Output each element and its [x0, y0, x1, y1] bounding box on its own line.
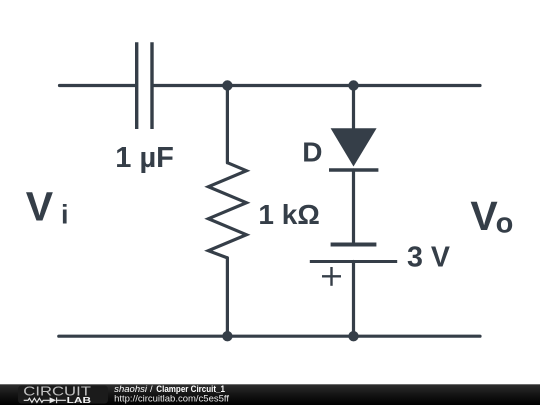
svg-text:/: /: [150, 384, 153, 394]
svg-text:http://circuitlab.com/c5es5ff: http://circuitlab.com/c5es5ff: [114, 393, 229, 403]
battery plus sign: [322, 267, 341, 286]
wire battery to bottom rail: [352, 262, 355, 337]
node bottom-right junction: [348, 331, 358, 341]
svg-text:V: V: [470, 193, 498, 239]
svg-text:V: V: [26, 184, 54, 230]
wire bottom rail: [59, 335, 480, 338]
battery V1 bottom plate: [310, 260, 397, 263]
wire diode anode lead: [352, 86, 355, 129]
node top-right junction: [348, 80, 358, 90]
diode D cathode bar: [329, 168, 378, 171]
logo resistor-diode glyph: [24, 397, 66, 403]
resistor R1 zigzag: [208, 163, 246, 258]
svg-text:1 kΩ: 1 kΩ: [258, 199, 319, 230]
svg-text:LAB: LAB: [67, 395, 91, 405]
svg-text:1 µF: 1 µF: [115, 142, 174, 174]
svg-text:shaohsi: shaohsi: [114, 384, 148, 394]
wire resistor top lead: [226, 86, 229, 163]
svg-text:o: o: [496, 208, 514, 240]
diode D triangle: [331, 128, 377, 166]
node top-left junction: [222, 80, 232, 90]
battery V1 top plate: [331, 243, 377, 247]
node bottom-left junction: [222, 331, 232, 341]
footer logo badge: [18, 386, 108, 404]
svg-text:Clamper Circuit_1: Clamper Circuit_1: [156, 384, 225, 394]
svg-text:D: D: [302, 137, 322, 168]
node junction dots: [222, 80, 358, 341]
capacitor C1 plates: [137, 42, 152, 129]
wire top-left from Vi to capacitor: [60, 84, 136, 87]
svg-text:i: i: [61, 200, 69, 230]
svg-text:3 V: 3 V: [407, 241, 450, 273]
wire resistor bottom lead: [226, 258, 229, 336]
wire from capacitor to Vo across top: [154, 84, 480, 87]
footer black bar: [0, 384, 540, 405]
wire diode to battery: [352, 170, 355, 243]
